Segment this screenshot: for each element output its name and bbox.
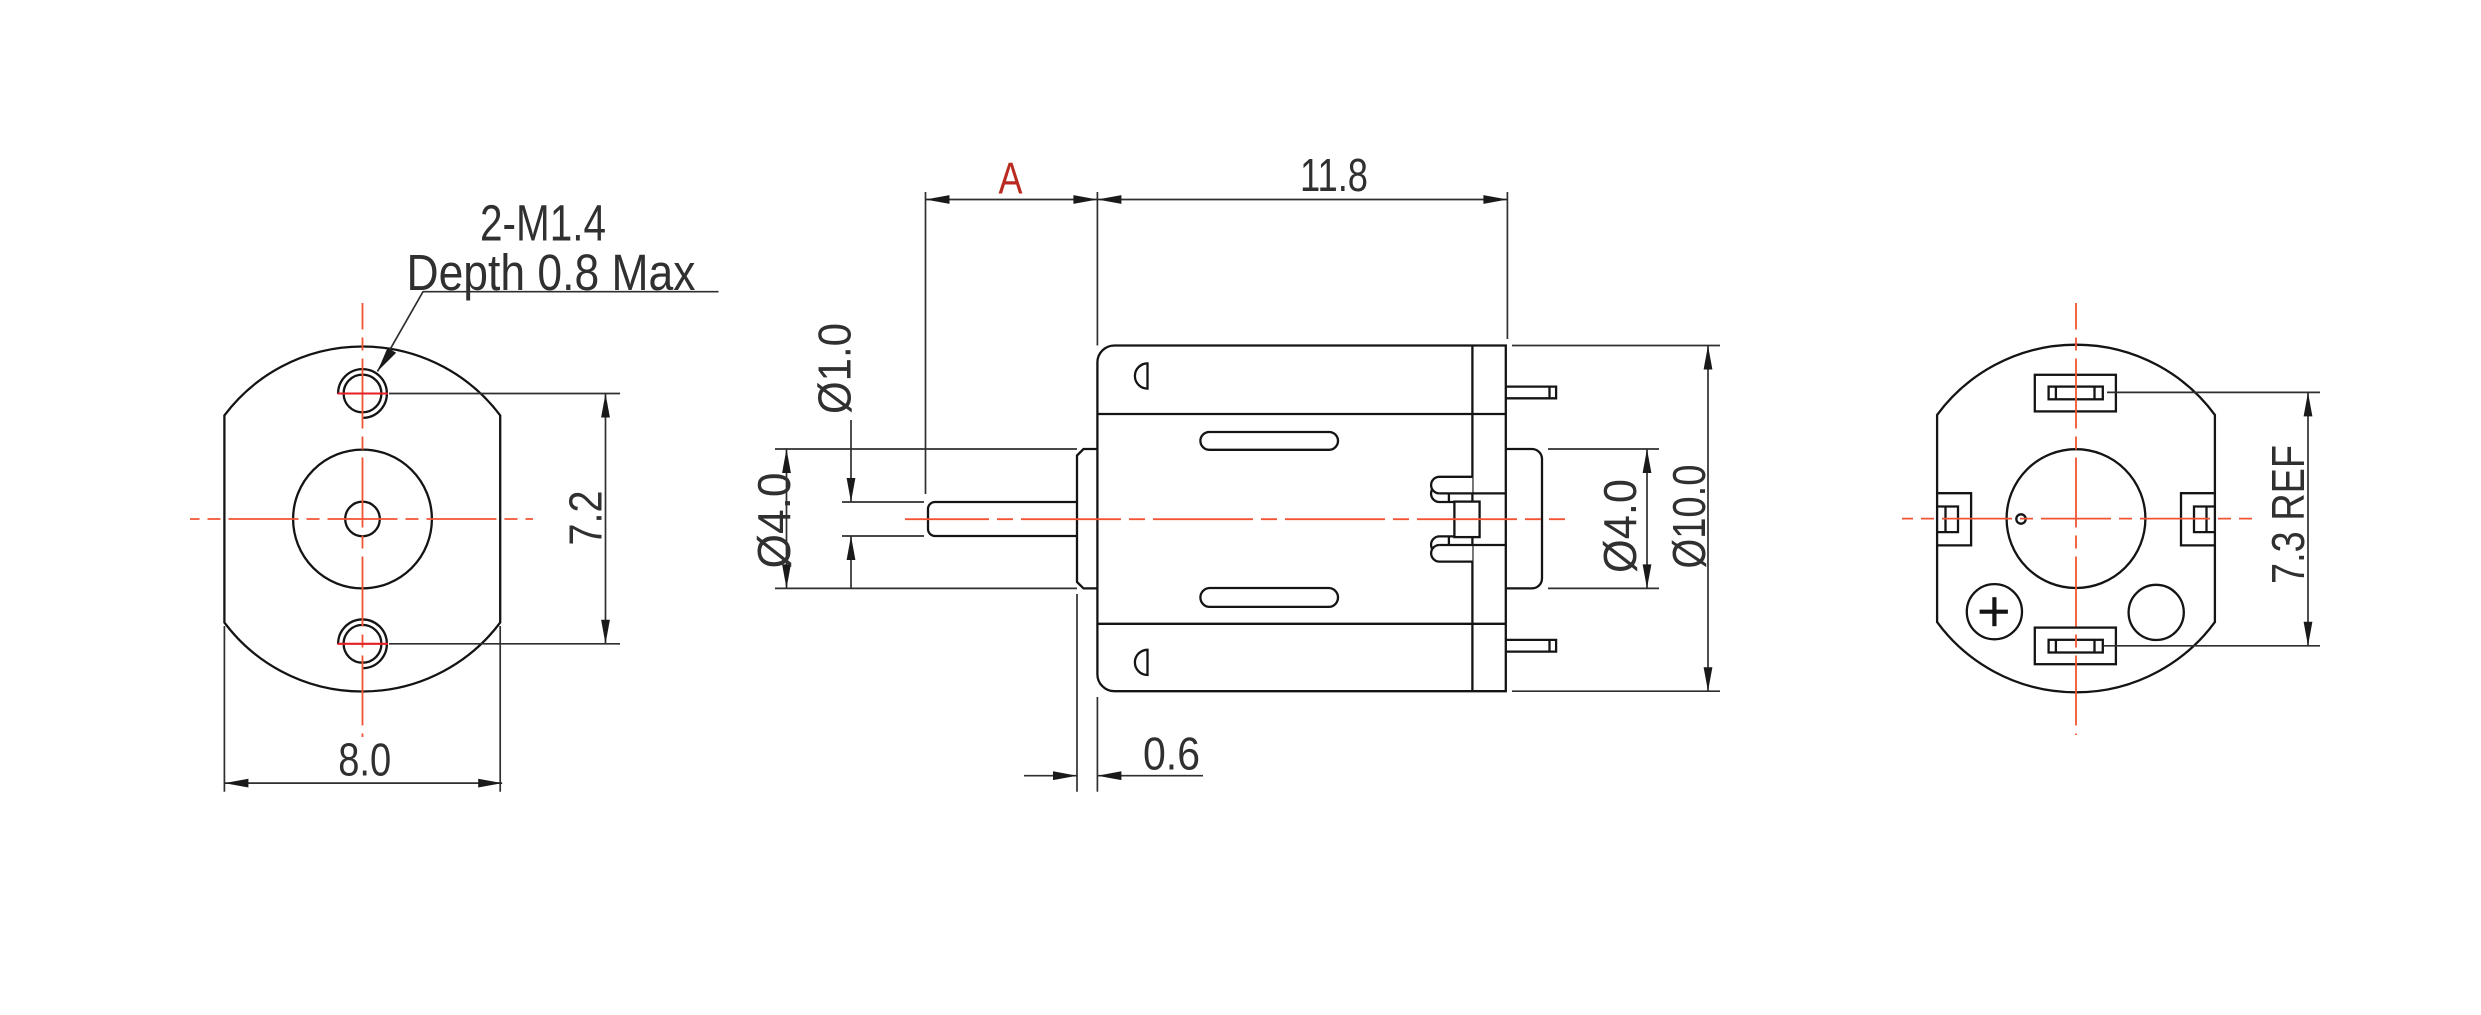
A arrow right / 11.8 arrow left pair <box>1073 195 1097 204</box>
shaft <box>928 502 1077 536</box>
terminal left slot <box>1936 507 1958 533</box>
svg-text:Ø1.0: Ø1.0 <box>809 323 861 414</box>
brush tick top <box>1448 493 1450 501</box>
plus cross <box>1980 597 2008 626</box>
terminal right slot <box>2194 507 2216 533</box>
terminal pin bottom <box>1506 640 1556 652</box>
motor body outline <box>1097 346 1505 692</box>
svg-text:7.3 REF: 7.3 REF <box>2262 445 2314 584</box>
ext line shaft end (A dim) <box>925 192 927 494</box>
ext line body right (11.8) <box>1506 192 1508 339</box>
Ø10.0 ext top <box>1512 345 1720 347</box>
Ø1.0 dim line lower <box>850 536 852 588</box>
plain circle <box>2129 585 2184 640</box>
ext line body left (A/11.8) <box>1096 192 1098 346</box>
pin tick top <box>1548 387 1550 399</box>
terminal bottom outer <box>2035 628 2116 665</box>
red centerlines, left view <box>190 303 533 737</box>
8.0 arrow right <box>478 779 502 788</box>
7.2 arrow top <box>601 394 610 418</box>
terminal left divider <box>1944 507 1946 533</box>
brush tick bottom <box>1448 537 1450 545</box>
dimensions, side view <box>775 192 1720 792</box>
vent slot top <box>1200 432 1338 450</box>
0.6 dim line right part <box>1097 775 1203 777</box>
brush leaf arc top <box>1431 485 1454 502</box>
Ø4.0 left arrow down <box>782 564 791 588</box>
brush plate line bottom <box>1439 544 1505 546</box>
body flat line bottom <box>1097 623 1505 625</box>
top hole red cross line <box>338 392 388 394</box>
terminal right divider <box>2205 507 2207 533</box>
commutator box <box>1454 502 1479 537</box>
top screw hole inner circle <box>344 375 382 413</box>
motor rear outline <box>1937 345 2215 693</box>
rear bearing circle <box>2007 449 2146 588</box>
D-shaped tab mark bottom <box>1135 650 1148 675</box>
7.2 arrow bottom <box>601 620 610 644</box>
7.2 extension line top <box>389 393 620 395</box>
terminal top slot dividers <box>2055 387 2057 400</box>
Ø1.0 arrow up <box>847 536 856 560</box>
7.3 REF dim line <box>2307 392 2309 645</box>
brush tab bottom white fill <box>1431 545 1472 562</box>
motor front outline (circle with side flats) <box>224 347 500 692</box>
7.3 REF ext top <box>2107 391 2320 393</box>
svg-text:Depth 0.8 Max: Depth 0.8 Max <box>407 244 696 301</box>
Ø10.0 ext bottom <box>1512 690 1720 692</box>
svg-text:8.0: 8.0 <box>338 734 391 786</box>
plus marking circle <box>1967 584 2022 639</box>
bottom hole red cross line <box>338 643 388 645</box>
svg-text:Ø4.0: Ø4.0 <box>748 473 800 569</box>
Ø4.0 right ext top <box>1548 448 1659 450</box>
red centerline, side view <box>905 518 1565 520</box>
Ø4.0 right ext bottom <box>1548 587 1659 589</box>
Ø1.0 arrow down <box>847 478 856 502</box>
D-shaped tab mark top <box>1135 363 1148 388</box>
body flat line top <box>1097 413 1505 415</box>
front bearing boss <box>1077 449 1097 588</box>
7.3 REF ext bottom <box>2104 645 2320 647</box>
terminal bottom slot dividers <box>2055 640 2057 653</box>
8.0 extension line left <box>223 626 225 792</box>
Ø4.0 left ext top <box>775 448 1077 450</box>
pin tick bottom <box>1548 640 1550 652</box>
red centerlines, rear view <box>1902 303 2252 735</box>
small dot <box>2016 514 2025 523</box>
Ø10.0 arrow up <box>1704 346 1713 370</box>
svg-text:A: A <box>999 155 1023 204</box>
A arrow left <box>926 195 950 204</box>
11.8 dimension line <box>1097 199 1507 201</box>
vent slot bottom <box>1200 588 1338 607</box>
0.6 ext line left <box>1076 594 1078 792</box>
terminal top outer <box>2035 375 2116 412</box>
8.0 extension line right <box>499 626 501 792</box>
svg-text:0.6: 0.6 <box>1143 728 1200 780</box>
0.6 arrow left <box>1097 771 1121 780</box>
A dimension line <box>926 199 1098 201</box>
rear bearing boss <box>1506 449 1542 588</box>
brush tab top white fill <box>1431 477 1472 494</box>
terminal top slot <box>2049 387 2103 400</box>
7.2 dimension line <box>605 394 607 644</box>
horizontal centerline <box>1902 518 2252 520</box>
horizontal centerline <box>190 518 533 520</box>
terminal right outer <box>2181 493 2216 545</box>
brush leaf arc bottom <box>1431 536 1454 553</box>
dimensions, rear view <box>2104 392 2320 645</box>
7.3 arrow bottom <box>2304 622 2313 646</box>
Ø10.0 arrow down <box>1704 667 1713 691</box>
bottom screw hole inner circle <box>344 625 382 663</box>
brush tab bottom outline <box>1431 545 1472 562</box>
vertical centerline <box>362 303 364 737</box>
0.6 arrow right <box>1053 771 1077 780</box>
8.0 arrow left <box>224 779 248 788</box>
svg-text:Ø10.0: Ø10.0 <box>1663 465 1715 569</box>
front boss circle Ø4.0 <box>293 450 432 589</box>
8.0 dimension line <box>224 782 502 784</box>
7.3 arrow top <box>2304 392 2313 416</box>
svg-text:Ø4.0: Ø4.0 <box>1594 479 1646 573</box>
Ø4.0 left ext bottom <box>775 587 1077 589</box>
terminal bottom slot <box>2049 640 2103 653</box>
Ø4.0 right dim line <box>1646 449 1648 588</box>
leader line for 2-M1.4 <box>378 292 719 372</box>
top screw hole thread arc <box>338 369 387 418</box>
terminal left outer <box>1936 493 1971 545</box>
7.2 extension line bottom <box>389 643 620 645</box>
horizontal centerline <box>905 518 1565 520</box>
svg-text:7.2: 7.2 <box>560 491 612 546</box>
leader arrowhead <box>378 348 397 372</box>
Ø1.0 ext line top <box>842 501 924 503</box>
Ø1.0 dim line upper <box>850 420 852 502</box>
Ø4.0 left arrow up <box>782 449 791 473</box>
11.8 arrow right <box>1483 195 1507 204</box>
svg-text:11.8: 11.8 <box>1300 149 1368 201</box>
brush plate line top <box>1439 492 1505 494</box>
0.6 dim line left part <box>1024 775 1077 777</box>
dimensions, left view <box>224 292 718 792</box>
terminal pin top <box>1506 387 1556 399</box>
vertical centerline <box>2075 303 2077 735</box>
Ø4.0 right arrow up <box>1643 449 1652 473</box>
shaft hole Ø1.0 <box>345 502 380 537</box>
Ø4.0 left dim line <box>786 449 788 588</box>
brush tab top outline <box>1431 477 1472 494</box>
Ø10.0 dim line <box>1707 346 1709 692</box>
bottom screw hole thread arc <box>338 619 387 668</box>
0.6 ext line right <box>1096 697 1098 792</box>
Ø4.0 right arrow down <box>1643 564 1652 588</box>
end cap boundary line <box>1471 346 1473 692</box>
Ø1.0 ext line bottom <box>842 535 924 537</box>
